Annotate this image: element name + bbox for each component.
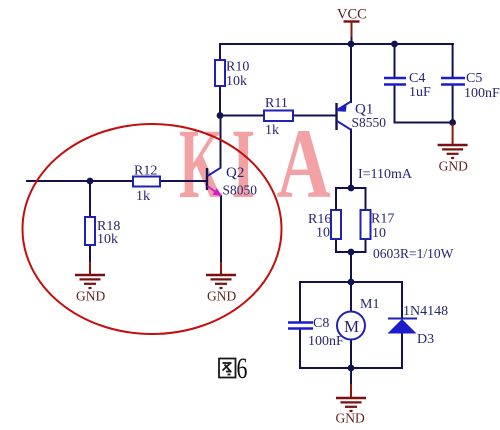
wire C5 vertical [452, 44, 454, 77]
svg-text:C5: C5 [466, 71, 482, 86]
svg-text:S8050: S8050 [223, 183, 258, 198]
transistor Q1 [337, 102, 352, 131]
wire mid vertical to motor box [350, 252, 352, 282]
resistor R16 [331, 210, 341, 239]
resistor R17 [361, 210, 371, 239]
wire motor box bottom rail [300, 367, 402, 369]
svg-text:1k: 1k [265, 123, 279, 138]
capacitor C5 [441, 78, 465, 85]
svg-text:R17: R17 [371, 212, 394, 227]
node C5 bottom junction [449, 119, 456, 126]
svg-text:GND: GND [76, 289, 105, 304]
svg-text:I=110mA: I=110mA [358, 167, 413, 182]
ground under R18 [75, 262, 105, 304]
resistor R11 [264, 111, 293, 122]
wire parallel block [335, 188, 337, 210]
diode D3 [388, 319, 418, 334]
transistor Q2 [207, 168, 222, 196]
ground under Q2 [206, 262, 236, 304]
node R12/R18 junction [87, 178, 94, 185]
highlight ellipse [23, 124, 282, 334]
node above R16R17 [348, 185, 355, 192]
svg-text:1uF: 1uF [409, 85, 431, 100]
ground under C5 [438, 124, 468, 174]
wire R18 drop [89, 181, 91, 217]
capacitor C4 [384, 78, 406, 85]
node R10 bottom junction [217, 112, 224, 119]
wire base row Q1 [220, 115, 336, 117]
figure label 图6 [219, 359, 236, 378]
wire R10 vertical [219, 44, 221, 116]
svg-text:GND: GND [336, 411, 365, 426]
svg-text:M: M [344, 317, 359, 336]
wire Q2 emitter vertical [220, 196, 222, 262]
resistor R12 [133, 177, 160, 187]
svg-text:S8550: S8550 [352, 115, 387, 130]
svg-text:D3: D3 [417, 332, 434, 347]
svg-text:GND: GND [439, 159, 468, 174]
wire R16R17 top bar [335, 239, 337, 252]
resistor R10 [215, 60, 225, 86]
ground bottom center [336, 369, 367, 426]
svg-text:0603R=1/10W: 0603R=1/10W [373, 246, 454, 261]
wire motor box right [401, 282, 403, 318]
svg-text:R12: R12 [134, 164, 157, 179]
node motor box top [348, 279, 355, 286]
svg-text:M1: M1 [360, 297, 379, 312]
svg-text:GND: GND [207, 289, 236, 304]
capacitor C8 [288, 323, 313, 329]
node below R16R17 [348, 249, 355, 256]
svg-text:K: K [179, 108, 223, 219]
watermark KIA [179, 108, 331, 220]
wire motor vertical [350, 282, 352, 312]
svg-text:1N4148: 1N4148 [403, 304, 448, 319]
svg-text:R10: R10 [226, 60, 249, 75]
power VCC [337, 7, 367, 44]
svg-text:R11: R11 [265, 96, 288, 111]
svg-text:VCC: VCC [337, 7, 367, 23]
node motor box bottom [348, 365, 355, 372]
svg-text:10: 10 [372, 226, 386, 241]
motor M1 [337, 312, 365, 340]
svg-text:Q2: Q2 [226, 165, 244, 181]
svg-text:10k: 10k [97, 232, 118, 247]
svg-text:6: 6 [237, 352, 248, 385]
wire C4-C5 bottom [395, 122, 453, 124]
wire collector Q1 down [350, 130, 352, 189]
wire Q2 collector vertical [220, 116, 222, 168]
wire C4 vertical [394, 44, 396, 77]
wire top rail [220, 43, 453, 45]
wire motor box top rail [300, 281, 402, 283]
svg-text:10k: 10k [226, 74, 247, 89]
svg-text:C8: C8 [313, 316, 329, 331]
wire left input [27, 180, 133, 182]
wire R12 to Q2 [160, 180, 206, 182]
node VCC junction [348, 41, 355, 48]
svg-text:C4: C4 [409, 71, 425, 86]
svg-text:10: 10 [316, 226, 330, 241]
wire motor box left [299, 282, 301, 321]
svg-text:100nF: 100nF [464, 86, 500, 101]
svg-text:1k: 1k [136, 189, 150, 204]
wire R18 to gnd [89, 245, 91, 262]
wire main vertical upper [350, 44, 352, 102]
node C4 junction [391, 41, 398, 48]
resistor R18 [85, 217, 95, 245]
svg-text:A: A [277, 109, 331, 220]
svg-text:100nF: 100nF [308, 334, 344, 349]
